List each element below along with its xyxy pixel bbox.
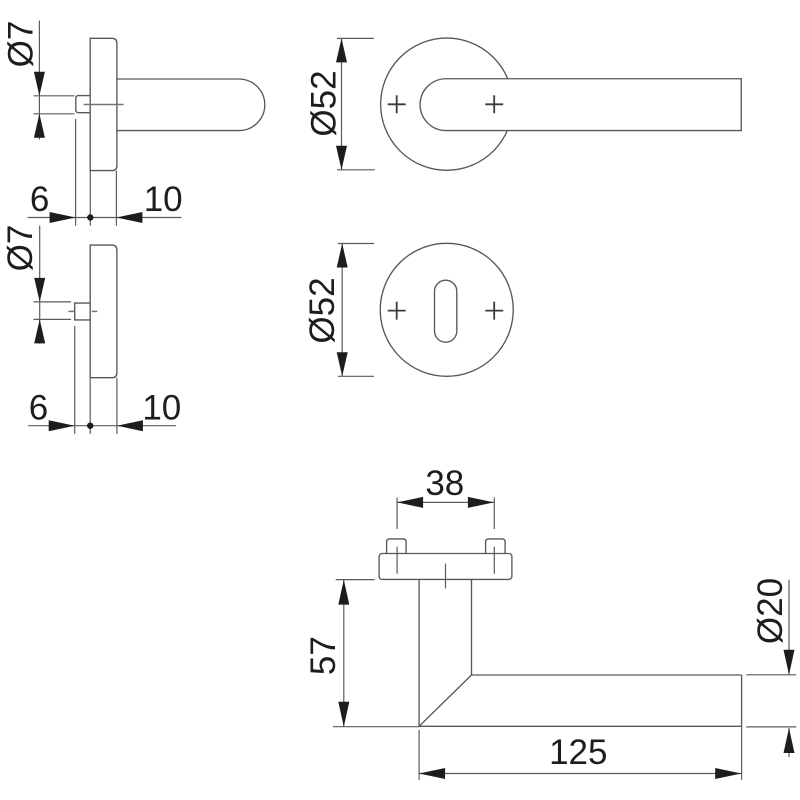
svg-text:125: 125 <box>549 733 607 772</box>
svg-text:Ø7: Ø7 <box>2 21 41 68</box>
svg-text:57: 57 <box>304 636 343 675</box>
svg-text:10: 10 <box>144 180 183 219</box>
svg-text:Ø7: Ø7 <box>1 225 40 272</box>
svg-text:6: 6 <box>29 389 48 428</box>
svg-text:38: 38 <box>425 464 464 503</box>
svg-text:Ø20: Ø20 <box>751 578 790 644</box>
svg-text:Ø52: Ø52 <box>303 277 342 343</box>
svg-text:10: 10 <box>142 389 181 428</box>
svg-text:6: 6 <box>30 180 49 219</box>
svg-text:Ø52: Ø52 <box>305 70 344 136</box>
